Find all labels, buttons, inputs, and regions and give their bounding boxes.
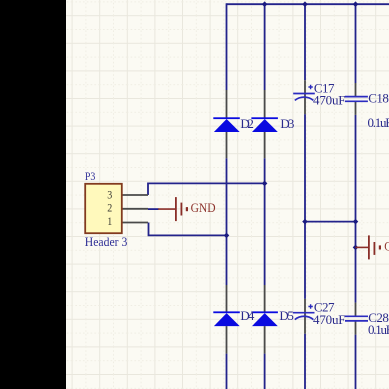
svg-text:D4: D4 [240, 308, 255, 323]
svg-text:D5: D5 [279, 308, 294, 323]
svg-text:470uF: 470uF [313, 312, 346, 327]
svg-text:0.1uF: 0.1uF [368, 115, 389, 130]
svg-text:1: 1 [107, 214, 112, 228]
svg-text:0.1uF: 0.1uF [368, 322, 389, 337]
svg-text:470uF: 470uF [313, 93, 346, 108]
svg-text:P3: P3 [85, 169, 96, 183]
svg-text:D2: D2 [240, 116, 254, 131]
svg-text:GND: GND [191, 200, 216, 215]
svg-text:Header 3: Header 3 [85, 234, 128, 249]
svg-text:2: 2 [107, 200, 112, 214]
svg-text:3: 3 [107, 187, 112, 201]
svg-text:D3: D3 [280, 116, 294, 131]
svg-text:GND: GND [384, 238, 389, 253]
svg-text:C18: C18 [368, 90, 389, 105]
